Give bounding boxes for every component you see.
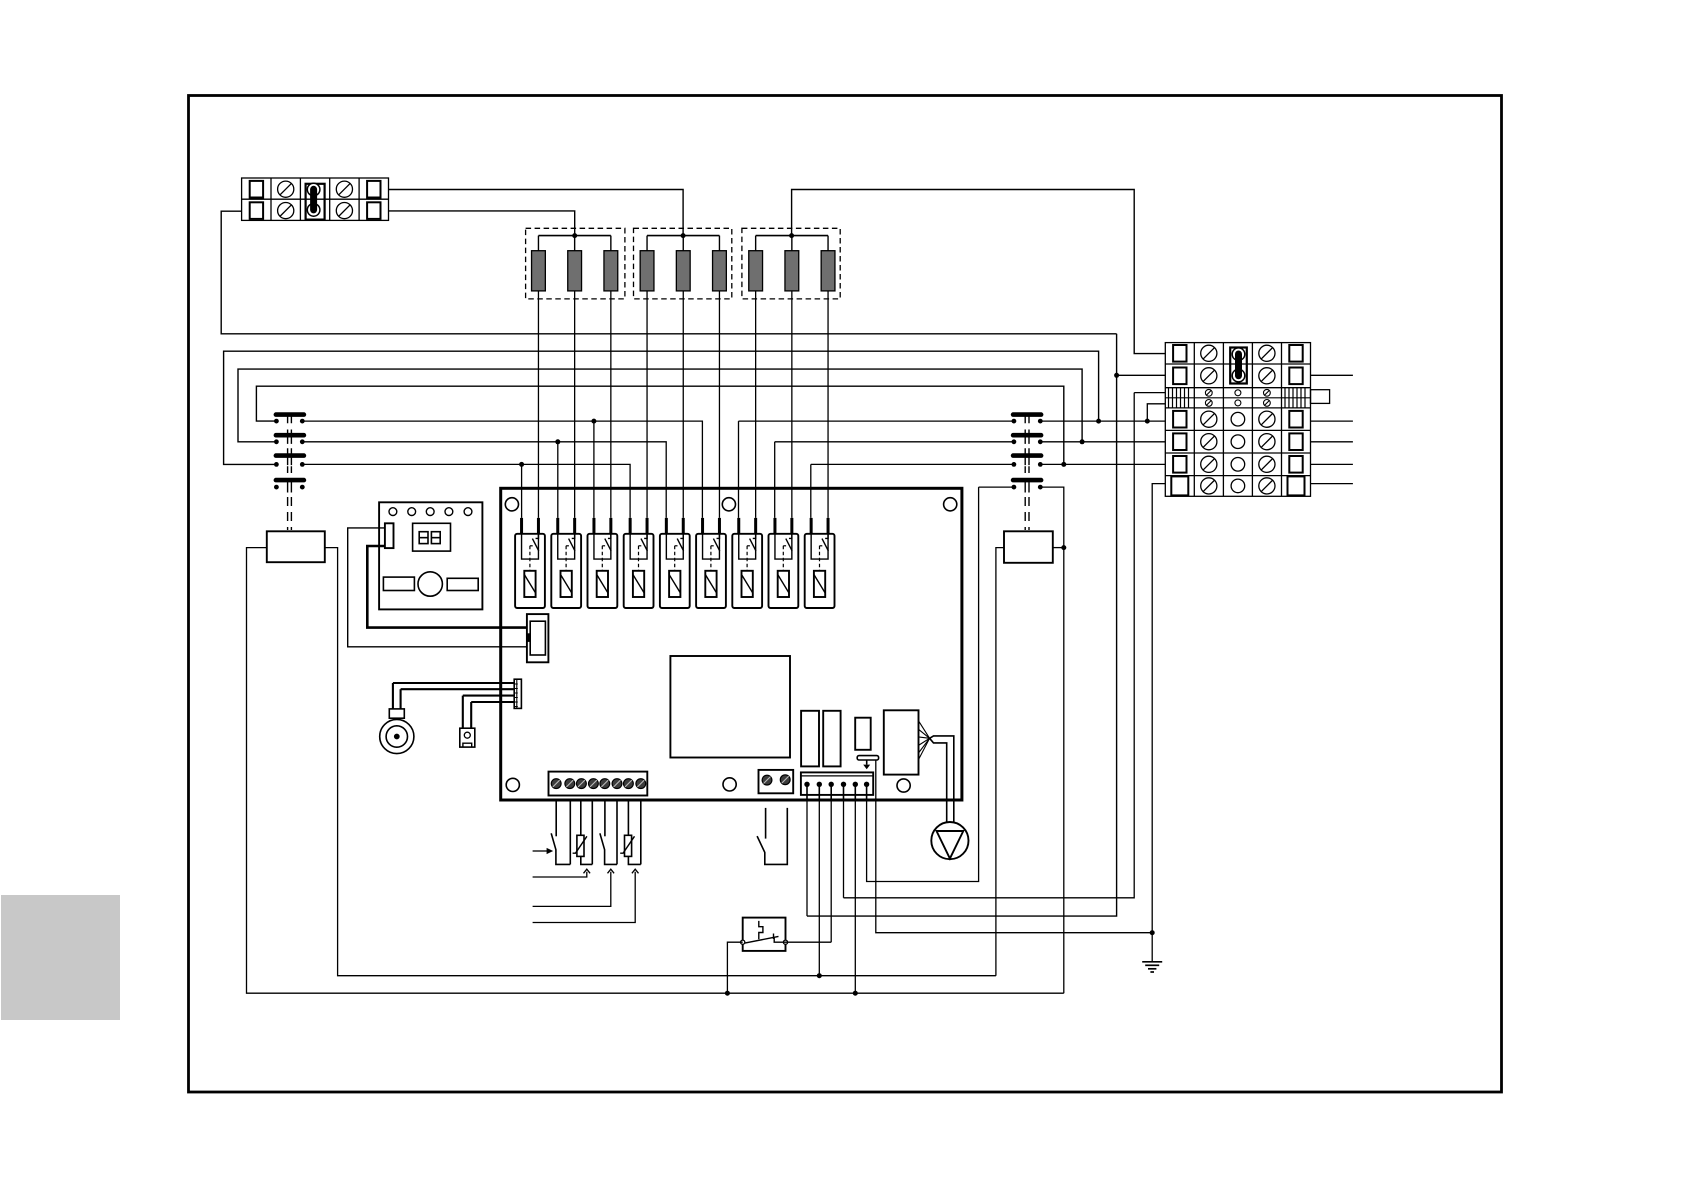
fuse element F3.3 <box>821 251 835 291</box>
relay RL2 <box>823 711 840 767</box>
wire fuse group F3 feed to X2 row1 <box>792 190 1166 354</box>
wire fuse F1.1 down to relay pin <box>537 291 539 518</box>
X2 r2 square c5 <box>1289 368 1302 385</box>
wire row-B left segment <box>302 442 666 518</box>
terminal block X2 (right) <box>1165 343 1310 497</box>
J4 pin <box>841 782 846 787</box>
bus inside F2 <box>647 235 719 237</box>
X2 fuse row screw <box>1205 389 1212 396</box>
wire u1L pin drop <box>521 464 523 518</box>
wire X1 row1 to fuse group F2 <box>389 190 684 236</box>
X2 fuse row hatch <box>1168 388 1170 408</box>
capillary arrow B <box>533 872 611 907</box>
wire right stack row4 right down to bottom bus <box>1040 487 1064 993</box>
X2 r4 square c5 <box>1289 411 1302 428</box>
node F3 feed <box>789 233 794 238</box>
fuse element F2.3 <box>713 251 727 291</box>
panel LED <box>445 508 453 516</box>
wire row-A left segment <box>302 421 702 518</box>
wire sensor 1 <box>463 695 514 697</box>
terminal X1 screw 2a <box>278 181 294 197</box>
wire fuse F3.3 down to relay pin <box>827 291 829 518</box>
node u2L on row-B <box>555 439 560 444</box>
terminal X1 pin 5b square <box>367 202 380 219</box>
X2 r6 screw c2 <box>1201 456 1217 472</box>
X2 r7 square c5 <box>1288 476 1305 495</box>
capillary arrow C <box>533 872 636 923</box>
node pressure switch on bus B <box>725 991 730 996</box>
wire X1 row2-left long bus to X2 row2 <box>221 211 1116 334</box>
panel LED <box>408 508 416 516</box>
terminal X1 pin 1b square <box>250 202 263 219</box>
relay K6 with fuse <box>701 518 704 533</box>
pressure switch S5 <box>743 918 786 951</box>
fuse element F3.2 <box>785 251 799 291</box>
flow switch S2 <box>555 800 557 836</box>
wire display cable thick <box>367 546 527 628</box>
relay K9 with fuse <box>810 518 813 533</box>
buzzer cable connector <box>514 679 521 708</box>
wire pin1 down <box>806 800 808 916</box>
wire buzzer 1 <box>393 682 514 684</box>
capacitor C1 <box>855 718 871 750</box>
X2 r4 circle c3 <box>1231 412 1245 426</box>
J2 screw <box>565 779 575 789</box>
PCB mounting hole <box>505 498 518 511</box>
main control PCB <box>501 488 962 800</box>
wire pin6 loop up to right stack row4 <box>867 487 979 881</box>
wire u2L pin drop <box>557 442 559 518</box>
wire u9L up to right stack row3 <box>811 464 1014 518</box>
J2 screw <box>551 779 561 789</box>
bus from filter K1-L row1 to right stack row3 junction <box>256 386 1063 464</box>
panel LED <box>389 508 397 516</box>
buzzer BZ1 <box>389 709 404 718</box>
relay K1 with fuse <box>520 518 523 533</box>
K1-L bar 2 <box>274 433 307 438</box>
bus from filter K1-L row3 to right row4 junction <box>224 351 1099 464</box>
J4 pin <box>864 782 869 787</box>
dashed enclosure fuse group F1 <box>526 228 625 299</box>
wire S5 left to bus B <box>727 942 742 993</box>
K1-R bar 1 <box>1011 412 1044 417</box>
node u3L on row-A <box>591 419 596 424</box>
terminal X1 pin 1a square <box>250 181 263 198</box>
PCB mounting hole <box>944 498 957 511</box>
fuse element F2.2 <box>676 251 690 291</box>
NTC sensor R2 <box>627 800 629 835</box>
wire into X2 row2 <box>1117 374 1166 376</box>
ground symbol <box>1142 961 1162 963</box>
X2 fuse row circle <box>1235 390 1241 396</box>
wire fuse F1.3 down to relay pin <box>610 291 612 518</box>
wire fuse F2.1 down to relay pin <box>646 291 648 518</box>
X2 r1 square c5 <box>1289 345 1302 362</box>
panel knob <box>418 572 442 596</box>
X2 r2 screw c4 <box>1259 368 1275 384</box>
jumper link on X1 column 3 <box>306 184 325 220</box>
dashed enclosure fuse group F3 <box>742 228 840 299</box>
J4 pin <box>804 782 809 787</box>
J2 screw <box>589 779 599 789</box>
node pin2 on bus A <box>817 973 822 978</box>
terminal block X1 (top left) <box>242 178 389 220</box>
node u1L on row-C <box>519 462 524 467</box>
node earth junction <box>1150 930 1155 935</box>
J2 screw <box>636 779 646 789</box>
NTC sensor R1 <box>580 800 582 835</box>
wire right stack row1 to X2 row4 <box>1040 420 1165 422</box>
X2 r1 square c1 <box>1173 345 1186 362</box>
fuse element F3.1 <box>749 251 763 291</box>
terminal X1 screw 2b <box>278 203 294 219</box>
2-pole terminal J3 <box>759 770 794 793</box>
wire fuse F3.2 down to relay pin <box>791 291 793 518</box>
wire X2 fuse-row lower hook to row4 bus <box>1147 404 1165 421</box>
bus from filter K1-L row2 to right row5 junction <box>238 369 1082 442</box>
capillary arrow A <box>533 872 587 877</box>
wire fuse F3.1 down to relay pin <box>755 291 757 518</box>
bus inside F1 <box>538 235 610 237</box>
X2 r4 screw c2 <box>1201 411 1217 427</box>
X2 r4 screw c4 <box>1259 411 1275 427</box>
X2 fuse row screw <box>1205 400 1212 407</box>
dashed enclosure fuse group F2 <box>634 228 732 299</box>
7-segment display <box>413 523 451 551</box>
wire u7L up to right stack row1 <box>739 421 1014 518</box>
transformer T1 <box>670 656 790 758</box>
wire pump 1 <box>930 736 954 822</box>
panel connector tab <box>385 523 394 548</box>
terminal X1 screw 4a <box>336 181 352 197</box>
wire long bus X1row2 down to pin1 <box>807 334 1117 916</box>
J2 screw <box>577 779 587 789</box>
6-pin connector J4 <box>801 772 873 795</box>
PCB mounting hole <box>897 779 910 792</box>
PCB mounting hole <box>722 498 735 511</box>
X2 r6 square c5 <box>1289 456 1302 473</box>
J2 screw <box>624 779 634 789</box>
X2 r4 square c1 <box>1173 411 1186 428</box>
X2 r5 screw c4 <box>1259 434 1275 450</box>
node right plug right <box>1061 545 1066 550</box>
panel LED <box>464 508 472 516</box>
wire u3L pin drop <box>593 421 595 518</box>
X2 right side external wires <box>1311 374 1353 376</box>
dashed link K1-L to plug <box>288 497 292 530</box>
X2 r5 circle c3 <box>1231 435 1245 449</box>
pump P1 <box>931 822 968 859</box>
control panel / display unit A1 <box>379 502 482 609</box>
plug housing left <box>267 531 325 562</box>
X2 fuse holder tab <box>1311 390 1330 404</box>
node F1 feed <box>572 233 577 238</box>
display connector J-disp <box>527 614 549 662</box>
wire left plug-right down to bottom bus A <box>325 548 996 976</box>
wire pin3 to pressure switch <box>830 800 832 942</box>
node right row4 <box>1096 419 1101 424</box>
level electrode symbol <box>857 756 878 760</box>
panel button right <box>447 578 478 590</box>
X2 r7 circle c3 <box>1231 479 1245 493</box>
pump cable fan-out <box>919 721 930 739</box>
wire row-C left segment <box>302 464 630 518</box>
node fuse-lower/row4 <box>1145 419 1150 424</box>
relay K2 with fuse <box>556 518 559 533</box>
PCB mounting hole <box>506 778 519 791</box>
wire X1 row2 to fuse group F1 <box>389 211 575 236</box>
screw terminal strip J2 <box>549 772 648 796</box>
X2 r6 circle c3 <box>1231 458 1245 472</box>
relay K5 with fuse <box>665 518 668 533</box>
wire buzzer 2 <box>401 688 515 690</box>
wire X2 fuse-row upper to pin4 <box>844 393 1166 898</box>
X2 r2 screw c2 <box>1201 368 1217 384</box>
J4 pin <box>817 782 822 787</box>
terminal X1 screw 4b <box>336 203 352 219</box>
X2 fuse row screw <box>1264 400 1271 407</box>
limit thermostat S3 <box>604 800 606 836</box>
J4 pin <box>829 782 834 787</box>
node F2 feed <box>681 233 686 238</box>
J4 pin <box>853 782 858 787</box>
fuse element F1.2 <box>568 251 582 291</box>
J3 screw 1 <box>762 775 772 785</box>
wire X2 row7 down to earth <box>1152 484 1165 962</box>
wire pin2 to bus A <box>818 800 820 976</box>
X2 r7 square c1 <box>1171 476 1188 495</box>
pump connector block <box>884 710 919 774</box>
J2 screw <box>612 779 622 789</box>
wire earth from electrode bar <box>876 760 1152 933</box>
X2 fuse row screw <box>1264 389 1271 396</box>
jumper link X2 col3 rows1-2 <box>1230 348 1247 384</box>
X2 r7 screw c4 <box>1259 478 1275 494</box>
terminal X1 pin 5a square <box>367 181 380 198</box>
X2 r7 screw c2 <box>1201 478 1217 494</box>
PCB mounting hole <box>723 778 736 791</box>
relay K4 with fuse <box>629 518 632 533</box>
wire u8L up to right stack row2 <box>775 442 1014 518</box>
gray page tab <box>1 895 120 1020</box>
wire left plug-left down to bottom bus B <box>247 548 1064 994</box>
water sensor S1 <box>460 728 475 747</box>
wire S5 right to pin3 <box>786 941 832 943</box>
wire fuse F1.2 down to relay pin <box>574 291 576 518</box>
dashed link K1-R to plug <box>1025 497 1029 530</box>
X2 r1 screw c4 <box>1259 345 1275 361</box>
wire right plug-right <box>1053 547 1064 549</box>
J3 screw 2 <box>780 775 790 785</box>
flow arrow <box>533 850 549 852</box>
node X2 row2 feed <box>1114 373 1119 378</box>
wire pin5 to bus B <box>854 800 856 993</box>
K1-L bar 3 <box>274 453 307 458</box>
outer border frame <box>189 96 1502 1093</box>
K1-R bar 2 <box>1011 433 1044 438</box>
fuse element F1.1 <box>532 251 546 291</box>
K1-L bar 1 <box>274 412 307 417</box>
X2 r6 square c1 <box>1173 456 1186 473</box>
wire sensor 2 <box>471 701 514 703</box>
X2 r5 screw c2 <box>1201 434 1217 450</box>
node right row3/row6 <box>1061 462 1066 467</box>
X2 r1 screw c2 <box>1201 345 1217 361</box>
wire pump 2 <box>930 738 947 822</box>
panel button left <box>383 577 414 590</box>
room thermostat contact S4 <box>765 808 767 839</box>
plug housing right <box>1004 531 1053 563</box>
node right row5 <box>1080 439 1085 444</box>
wire fuse F2.2 down to relay pin <box>682 291 684 518</box>
X2 r2 square c1 <box>1173 368 1186 385</box>
wire to right stack row4 left <box>979 486 1014 488</box>
relay K7 with fuse <box>737 518 740 533</box>
K1-R bar 4 <box>1011 478 1044 483</box>
X2 r5 square c1 <box>1173 433 1186 450</box>
J2 screw <box>600 779 610 789</box>
fuse element F2.1 <box>640 251 654 291</box>
wire right stack row2 to X2 row5 <box>1040 441 1165 443</box>
wire right stack row3 to X2 row6 <box>1040 463 1165 465</box>
wire right plug-left down to bus A <box>996 548 1004 976</box>
wire fuse F2.3 down to relay pin <box>718 291 720 518</box>
fuse element F1.3 <box>604 251 618 291</box>
relay K3 with fuse <box>592 518 595 533</box>
relay RL1 <box>801 711 819 767</box>
K1-L bar 4 <box>274 478 307 483</box>
K1-R bar 3 <box>1011 453 1044 458</box>
wire display cable thin <box>348 528 527 647</box>
node pin5 on bus B <box>853 991 858 996</box>
X2 r6 screw c4 <box>1259 456 1275 472</box>
X2 r5 square c5 <box>1289 433 1302 450</box>
wire pin4 down <box>843 800 845 898</box>
X2 fuse row circle <box>1235 400 1241 406</box>
relay K8 with fuse <box>773 518 776 533</box>
bus inside F3 <box>756 235 828 237</box>
panel LED <box>426 508 434 516</box>
